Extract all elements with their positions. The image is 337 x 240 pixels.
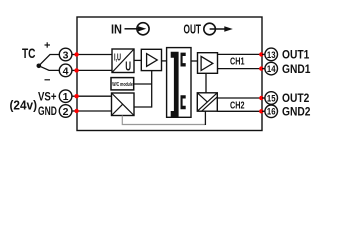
svg-text:VS+: VS+ (38, 89, 57, 103)
IN marker (111, 21, 149, 36)
terminal 3 (59, 48, 77, 61)
isolation barrier box (167, 48, 191, 118)
amplifier B (141, 49, 161, 70)
svg-text:3: 3 (63, 49, 69, 61)
terminal 16 (262, 105, 278, 118)
terminal 15 (262, 92, 278, 105)
wire transformer to amplifier C (191, 60, 198, 62)
wire C to demodulator E (205, 73, 207, 93)
terminal 4 (59, 64, 77, 77)
wire CH2 low to T16 (217, 110, 262, 112)
svg-text:2: 2 (63, 106, 69, 118)
wire A to amplifier B (134, 59, 141, 61)
junction dot T3 (74, 52, 78, 56)
svg-text:I,U: I,U (114, 53, 121, 64)
svg-text:16: 16 (267, 107, 276, 117)
converter A (I,U to U) (112, 49, 134, 74)
svg-text:14: 14 (267, 64, 276, 74)
junction dot T1 (74, 94, 78, 98)
svg-text:4: 4 (63, 65, 69, 77)
svg-text:OUT1: OUT1 (282, 48, 310, 62)
wire T1 to modulator D (77, 95, 112, 97)
svg-text:W/C module: W/C module (112, 82, 133, 88)
svg-text:CH1: CH1 (230, 56, 245, 67)
wire T2 to modulator D (77, 110, 112, 112)
junction dot T13 (259, 52, 263, 56)
svg-text:1: 1 (63, 91, 69, 103)
svg-text:(24v): (24v) (10, 99, 38, 113)
junction dot T4 (74, 68, 78, 72)
thermocouple TC (22, 46, 59, 70)
modulator D (112, 93, 135, 116)
wire filter module to supply node (134, 83, 152, 85)
plus polarity mark (45, 42, 51, 47)
svg-text:U: U (125, 59, 131, 74)
junction dot T15 (259, 96, 263, 100)
svg-text:13: 13 (267, 50, 276, 60)
svg-text:GND2: GND2 (282, 105, 311, 119)
junction dot T16 (259, 109, 263, 113)
feedback wire D bottom (122, 116, 205, 125)
wire T4 to converter A (77, 69, 112, 71)
svg-text:OUT2: OUT2 (282, 91, 310, 105)
terminal 2 (59, 105, 77, 118)
transformer primary winding (171, 52, 179, 117)
module outline box (77, 17, 262, 131)
svg-text:TC: TC (22, 46, 36, 61)
svg-text:GND: GND (38, 104, 57, 118)
demodulator E (197, 93, 217, 111)
terminal 14 (262, 62, 278, 75)
wire CH2 high to T15 (217, 97, 262, 99)
svg-text:OUT: OUT (184, 22, 202, 37)
transformer secondary winding 2 (181, 95, 186, 109)
terminal 13 (262, 48, 278, 61)
amplifier C (198, 53, 218, 74)
wire T3 to converter A (77, 54, 112, 56)
svg-text:CH2: CH2 (230, 100, 245, 111)
wire CH1 high to T13 (218, 53, 263, 55)
junction dot T2 (74, 109, 78, 113)
svg-text:GND1: GND1 (282, 62, 311, 76)
filter module (111, 78, 134, 90)
junction dot T14 (259, 66, 263, 70)
wire CH1 low to T14 (218, 68, 263, 70)
wire feedback to demodulator E (204, 111, 206, 125)
wire B to isolation transformer (162, 60, 167, 62)
minus polarity mark (45, 79, 51, 81)
terminal 1 (59, 90, 77, 103)
supply node wire B to D (151, 71, 153, 108)
wire D output to supply node (134, 106, 152, 108)
svg-text:IN: IN (111, 21, 122, 36)
transformer secondary winding 1 (181, 53, 186, 67)
svg-text:15: 15 (267, 93, 276, 103)
OUT marker (184, 22, 233, 37)
